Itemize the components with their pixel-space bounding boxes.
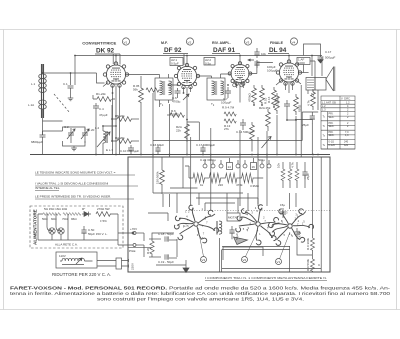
capacitor C17 500 — [200, 145, 205, 155]
svg-text:R.0 300k: R.0 300k — [306, 237, 310, 250]
label CONVERTITRICE V1 — [82, 42, 117, 55]
svg-text:DAF 91: DAF 91 — [213, 47, 235, 54]
svg-text:5: 5 — [303, 220, 305, 224]
svg-text:1: 1 — [259, 232, 261, 236]
svg-text:L.2: L.2 — [322, 105, 326, 108]
svg-text:C.20: C.20 — [88, 128, 95, 132]
svg-text:R.0556k: R.0556k — [133, 84, 140, 91]
wire switch stems — [205, 158, 269, 164]
variable capacitor C20 — [81, 128, 89, 143]
svg-text:1: 1 — [202, 207, 204, 211]
svg-text:47µµF: 47µµF — [99, 113, 108, 117]
svg-text:R2A22k: R2A22k — [176, 125, 182, 132]
svg-text:5Ω 15Ω 16Ω 10Ω: 5Ω 15Ω 16Ω 10Ω — [44, 207, 68, 211]
capacitor C1 — [68, 86, 74, 96]
socket V3 pointer — [280, 232, 291, 259]
resistor R11 vertical — [272, 87, 277, 107]
svg-text:16: 16 — [252, 165, 256, 169]
socket V2 pointer — [246, 230, 259, 257]
footnote underline — [205, 279, 327, 281]
wire trio stems — [283, 162, 305, 188]
svg-text:7: 7 — [206, 221, 208, 225]
svg-text:+70V: +70V — [130, 227, 137, 231]
svg-text:C.23 3000µ: C.23 3000µ — [200, 158, 216, 162]
switch contact row — [203, 163, 271, 170]
svg-text:R.16: R.16 — [267, 96, 271, 103]
svg-text:4.7k: 4.7k — [307, 100, 311, 106]
svg-text:V4: V4 — [292, 40, 296, 44]
svg-text:V1: V1 — [124, 40, 128, 44]
wire antenna top to grid rail — [43, 73, 71, 85]
svg-text:T4: T4 — [323, 144, 327, 147]
riduttore inner details — [60, 261, 93, 265]
labels coupling — [261, 52, 277, 73]
svg-text:500µ: 500µ — [258, 158, 265, 162]
pilot lamp 2 — [58, 228, 64, 234]
dropper resistor 2 — [52, 213, 61, 216]
tube V2 DF92 — [174, 63, 199, 88]
resistor R right vertical — [311, 89, 316, 110]
wire C top to anode rail — [304, 44, 321, 78]
svg-text:V2: V2 — [243, 258, 247, 262]
ground in chassis — [183, 268, 189, 273]
capacitor C14 — [240, 119, 246, 130]
socket V2 spider — [230, 198, 286, 251]
svg-text:220: 220 — [218, 183, 223, 187]
svg-text:C.7100µµF: C.7100µµF — [221, 97, 231, 104]
socket V1 pointer line — [198, 228, 204, 257]
svg-text:R.0 560k: R.0 560k — [306, 258, 310, 271]
wire right column verticals — [312, 55, 322, 110]
resistor R vertical trio right — [281, 169, 285, 181]
speaker — [326, 67, 335, 92]
svg-text:1000: 1000 — [298, 61, 305, 65]
dropper resistor chain labels — [44, 207, 68, 211]
capacitor C19 50µF — [149, 254, 177, 259]
socket V3 badge — [276, 259, 282, 265]
tuning subchassis wire frame — [63, 127, 86, 146]
capacitor C 500µµF top — [318, 48, 324, 63]
svg-text:1k: 1k — [200, 183, 204, 187]
svg-text:150-560k: 150-560k — [156, 171, 160, 184]
wire v2 anode to T2 — [197, 74, 232, 78]
svg-text:7: 7 — [203, 231, 205, 235]
svg-text:DF 92: DF 92 — [164, 47, 182, 54]
svg-text:270Ω 5W: 270Ω 5W — [97, 207, 110, 211]
arrow left — [248, 59, 254, 61]
capacitor C7 100µµF — [225, 87, 231, 98]
volume pot R2A 25k — [266, 109, 271, 131]
dropper resistor 1 — [43, 213, 52, 216]
svg-text:C.64700µ: C.64700µ — [172, 96, 181, 103]
underline DF92 — [163, 53, 188, 55]
wire antenna top up — [42, 64, 44, 73]
resistor battery dropper vertical — [150, 241, 154, 254]
V2 circle badge — [186, 38, 193, 45]
svg-text:PILE: PILE — [129, 249, 136, 253]
svg-text:500µµF: 500µµF — [325, 56, 335, 60]
svg-text:3: 3 — [251, 210, 253, 214]
resistor R17 vertical under V4 — [294, 94, 299, 115]
svg-text:V3: V3 — [246, 40, 250, 44]
diode plate leads V3 — [233, 80, 244, 87]
labels under droppers — [42, 217, 77, 221]
svg-text:C.19 - 50µF: C.19 - 50µF — [158, 260, 174, 264]
svg-text:L.1 ANT. OB: L.1 ANT. OB — [322, 101, 336, 104]
capacitor C18 50µF — [149, 236, 177, 241]
riduttore winding — [62, 258, 84, 261]
tube V3 DAF91 — [228, 62, 252, 86]
wire lamps — [47, 214, 68, 240]
svg-text:2: 2 — [347, 109, 349, 112]
svg-text:50Ω: 50Ω — [42, 217, 48, 221]
oscillator coil L2/L3 — [103, 131, 107, 143]
resistor row 2 — [209, 173, 225, 183]
svg-text:tenna in ferrite. Alimentazion: tenna in ferrite. Alimentazione a batter… — [10, 291, 390, 297]
wire T1 secondary to V2 grid — [160, 85, 178, 107]
wire mid rail y140.5 — [153, 112, 318, 141]
dotted line inside box — [186, 210, 330, 212]
resistor R10 vertical — [260, 85, 265, 105]
svg-text:5: 5 — [187, 224, 189, 228]
ground under C1 — [68, 96, 74, 101]
labels trio — [277, 162, 295, 168]
svg-text:7: 7 — [264, 219, 266, 223]
svg-text:V. CIRC.: V. CIRC. — [341, 98, 351, 101]
resistor R2A 22k vertical — [185, 124, 190, 142]
capacitor C2 6800pF — [40, 131, 46, 143]
resistor trio 2 — [288, 169, 292, 181]
IF transformer T2 — [207, 78, 225, 100]
coupling network V3/V4 — [254, 48, 259, 58]
svg-text:6800µµF: 6800µµF — [31, 140, 43, 144]
svg-text:SEC.: SEC. — [329, 125, 335, 128]
wire speaker links — [325, 78, 327, 81]
table frame — [321, 96, 355, 149]
wire chassis routing top — [170, 157, 258, 213]
variable capacitor C2 — [67, 128, 75, 143]
svg-text:15µ: 15µ — [280, 203, 285, 207]
output transformer T3 — [306, 78, 326, 91]
resistor chassis right 2 — [310, 259, 314, 271]
capacitor C16 50µF — [155, 145, 160, 155]
trimmer arrow T1 — [183, 94, 189, 100]
wire V3 pins down — [237, 82, 244, 103]
wedge under MGT — [234, 237, 248, 245]
wire gnd stem — [185, 260, 187, 268]
svg-text:Rs: Rs — [82, 207, 86, 211]
wire R4 top — [140, 76, 142, 155]
table header text — [322, 98, 351, 147]
wire R2A loop — [187, 122, 199, 141]
ground tuning — [71, 146, 77, 151]
pot wiper arrow — [262, 137, 272, 149]
surge resistor 270 — [96, 212, 110, 217]
riduttore outer box — [56, 252, 97, 268]
svg-text:R1-22k: R1-22k — [96, 92, 106, 96]
antenna coil L1A (lower link winding) — [39, 100, 47, 109]
capacitor C15 — [284, 100, 290, 110]
svg-text:4: 4 — [298, 219, 300, 223]
V1 circle badge — [122, 38, 129, 45]
resistor R3-20k horizontal — [117, 139, 139, 144]
svg-text:R5-22k: R5-22k — [115, 114, 125, 118]
resistor R6 2.2M horizontal — [167, 113, 184, 118]
wire V1 pins down — [103, 83, 120, 155]
svg-text:C.10 6800µµF: C.10 6800µµF — [120, 149, 139, 153]
svg-text:V4: V4 — [202, 258, 206, 262]
riduttore tap arrow — [76, 258, 82, 264]
svg-text:0-220: 0-220 — [329, 144, 336, 147]
wire v3 anode right — [249, 63, 273, 74]
capacitor 0.47 chassis right — [294, 228, 300, 239]
svg-text:T3: T3 — [323, 134, 327, 137]
svg-text:ALLA RETE C.A.: ALLA RETE C.A. — [55, 243, 78, 247]
svg-text:I VALORI TRA(...) SI DEVON: I VALORI TRA(...) SI DEVONO ALLE CONNESS… — [35, 182, 108, 186]
oscillator coil in chassis — [216, 221, 222, 235]
svg-text:5: 5 — [243, 227, 245, 231]
wire V2 pins down — [184, 87, 191, 155]
capacitor C right column — [310, 112, 315, 123]
svg-text:FINALE: FINALE — [270, 41, 284, 45]
V3 circle badge — [244, 38, 251, 45]
table columns — [328, 96, 341, 149]
svg-text:L.3: L.3 — [322, 109, 326, 112]
svg-text:L.1A: L.1A — [28, 103, 34, 107]
trimmer arrow through L2 — [97, 132, 110, 147]
note underline 2 — [35, 186, 138, 191]
resistor R13 horizontal — [224, 119, 236, 123]
resistor R16 vertical under V4 — [275, 93, 280, 114]
wire resistor 1M vertical above box — [160, 157, 165, 194]
svg-text:0.5µF: 0.5µF — [171, 62, 179, 66]
label FINALE V4 — [269, 41, 287, 54]
svg-text:110V: 110V — [59, 254, 66, 258]
svg-text:1,0: 1,0 — [345, 134, 349, 137]
svg-text:100µµF: 100µµF — [267, 69, 277, 73]
svg-text:470k: 470k — [236, 183, 243, 187]
capacitor C4 — [93, 103, 99, 113]
filter electrolytic — [81, 226, 86, 240]
labels under resistor row — [200, 183, 260, 188]
label MGT box — [227, 213, 240, 221]
socket V3 spider — [264, 202, 317, 250]
svg-text:470kΩ: 470kΩ — [248, 92, 252, 102]
svg-text:RIV. AMPL.: RIV. AMPL. — [212, 41, 231, 45]
resistor R2 1k near V1 — [146, 88, 161, 92]
svg-text:C.17 5000µµF: C.17 5000µµF — [196, 143, 215, 147]
note underline 3 — [35, 198, 134, 200]
svg-text:10k: 10k — [277, 163, 281, 168]
tube V4 DL94 — [276, 60, 301, 85]
svg-text:4: 4 — [186, 214, 188, 218]
svg-text:DL 94: DL 94 — [269, 47, 287, 54]
svg-text:ALIMENTATORE: ALIMENTATORE — [33, 209, 38, 245]
svg-text:LE TENSIONI INDICATE SONO M: LE TENSIONI INDICATE SONO MISURATE CON V… — [35, 171, 116, 175]
svg-text:25µF: 25µF — [306, 173, 310, 180]
dropper resistor 3 — [63, 213, 72, 216]
svg-text:50µF 150 V. L.: 50µF 150 V. L. — [88, 232, 108, 236]
svg-text:DK 92: DK 92 — [96, 48, 115, 55]
rectifier diode — [82, 212, 91, 217]
wire top screen rail y57 — [75, 55, 322, 57]
alimentatore dashed frame — [30, 206, 123, 248]
svg-text:± 5%: ± 5% — [100, 219, 107, 223]
electrolytic right of trio — [302, 168, 307, 179]
dropper resistor 4 — [72, 213, 81, 216]
wire misc right — [295, 85, 313, 157]
coupling ecap 2 — [254, 60, 259, 68]
svg-text:2: 2 — [263, 216, 265, 220]
resistor row under switches — [193, 173, 209, 183]
svg-text:T2: T2 — [323, 125, 327, 128]
junction dots — [42, 55, 319, 156]
svg-text:L.1: L.1 — [31, 82, 36, 86]
wire left joins of R5/R3 — [112, 105, 117, 141]
wire C4 down to rail — [93, 95, 96, 155]
svg-text:R.1327k: R.1327k — [224, 124, 231, 131]
svg-text:14: 14 — [228, 165, 232, 169]
wire osc coil to rails — [103, 126, 116, 155]
IF transformer T1 — [155, 78, 173, 100]
underline DK92 — [95, 54, 120, 65]
svg-text:CONVERTITRICE: CONVERTITRICE — [82, 42, 117, 46]
svg-text:V2: V2 — [188, 40, 192, 44]
wire L1A bottom to tuning box — [43, 109, 63, 135]
wire V4 pins down — [276, 80, 301, 93]
note underline 1 — [35, 174, 135, 176]
svg-text:C.14 500µµF: C.14 500µµF — [236, 130, 254, 134]
resistor R14 vertical low — [250, 122, 255, 152]
AV box — [170, 58, 183, 66]
battery terminal + — [133, 232, 144, 235]
svg-text:C.16 50µF: C.16 50µF — [150, 143, 164, 147]
svg-text:INTERNE AL TEL.: INTERNE AL TEL. — [35, 186, 60, 190]
footnote under chassis box — [205, 276, 327, 280]
ferrite rod — [42, 64, 44, 118]
capacitor 15µ in chassis top — [280, 208, 286, 218]
svg-text:T2: T2 — [211, 102, 215, 107]
capacitor C10 — [128, 145, 134, 155]
capacitor C6 — [175, 88, 181, 98]
wire grid rail y85 left — [71, 73, 105, 83]
socket V1 spider — [174, 205, 218, 243]
svg-text:220V: 220V — [131, 263, 135, 270]
grid stopper box 1AF — [297, 58, 310, 65]
label RIV. AMPL. V3 — [212, 41, 235, 54]
svg-text:0.5µ: 0.5µ — [205, 62, 211, 66]
wire chassis interior — [148, 157, 321, 272]
extra pin digits — [183, 207, 304, 240]
svg-text:R.9 4.7M: R.9 4.7M — [222, 106, 235, 110]
underline DAF91 — [212, 53, 240, 55]
svg-text:2: 2 — [257, 209, 259, 213]
svg-text:MGT/6: MGT/6 — [228, 216, 237, 220]
svg-text:I COMPONENTI TRA I N. 1: I COMPONENTI TRA I N. 1 COMPONENTI META … — [205, 276, 327, 280]
mains plug — [116, 258, 129, 269]
antenna coil L1 — [39, 74, 47, 92]
resistor R4 vertical right of V1 — [139, 84, 144, 106]
wire V4 lower joins — [277, 110, 296, 155]
wire row joins — [185, 166, 263, 178]
wire cap to bottom rail — [42, 131, 44, 155]
svg-text:SEC.: SEC. — [329, 134, 335, 137]
svg-text:R2A 25k: R2A 25k — [259, 106, 271, 110]
svg-text:T1: T1 — [160, 102, 164, 107]
wire supply chain — [38, 214, 118, 240]
svg-text:V1: V1 — [277, 260, 281, 264]
wire top rail drop at V1 — [75, 54, 289, 85]
resistor chassis right 1 — [310, 238, 314, 250]
svg-text:4.7k: 4.7k — [291, 162, 295, 168]
electrolytic in chassis — [229, 226, 234, 239]
resistor R5-22k horizontal — [117, 117, 139, 122]
wire bottom rail y154.5 full — [30, 154, 330, 156]
label M.F. V2 — [161, 41, 182, 54]
svg-text:R.20: R.20 — [146, 247, 150, 254]
svg-text:C.4: C.4 — [99, 107, 104, 111]
svg-text:25µF: 25µF — [302, 123, 309, 127]
output node circle — [132, 232, 134, 234]
svg-text:60Ω: 60Ω — [51, 217, 57, 221]
svg-text:1,2: 1,2 — [346, 101, 350, 104]
svg-text:C.1: C.1 — [63, 82, 68, 86]
svg-text:3: 3 — [286, 211, 288, 215]
svg-text:70Ω: 70Ω — [62, 217, 68, 221]
battery terminal - — [133, 244, 144, 247]
capacitor bank labels — [200, 158, 265, 162]
svg-text:10k: 10k — [261, 52, 266, 56]
wire riduttore to plug — [97, 261, 116, 267]
socket pin numbers — [185, 206, 305, 237]
svg-text:C.17: C.17 — [325, 50, 332, 54]
AV2 box above T2 — [204, 58, 215, 66]
resistor R1 22k — [93, 97, 115, 102]
resistor R8 470k vertical — [252, 85, 257, 105]
gang dashed link — [54, 94, 70, 113]
resistor row 4 — [242, 173, 259, 183]
V4 circle badge — [290, 38, 297, 45]
svg-text:sono costruiti per l’impiego c: sono costruiti per l’impiego con valvole… — [97, 297, 304, 303]
label 270 5W — [97, 207, 110, 223]
tube V1 DK92 — [103, 62, 128, 87]
svg-text:FARET-VOXSON - Mod. PERSONAL 5: FARET-VOXSON - Mod. PERSONAL 501 RECORD.… — [10, 286, 391, 292]
socket V1 badge — [201, 257, 207, 263]
wire supply outputs — [118, 233, 133, 245]
socket V2 badge — [242, 257, 248, 263]
svg-text:RIDUTTORE PER 220 V C. A.: RIDUTTORE PER 220 V C. A. — [52, 272, 111, 277]
table rows — [321, 101, 355, 150]
svg-text:C.18 - 50µF: C.18 - 50µF — [158, 232, 174, 236]
svg-text:420: 420 — [344, 144, 349, 147]
wire battery area — [144, 233, 177, 257]
pilot lamp 1 — [49, 228, 55, 234]
svg-text:0-1Ω: 0-1Ω — [329, 140, 335, 143]
svg-text:LE PRESE INTERMEDIE DEI TR: LE PRESE INTERMEDIE DEI TR. SI VEDONO IN… — [35, 195, 111, 199]
svg-text:SEC.: SEC. — [329, 116, 335, 119]
resistor R12 horizontal — [224, 112, 236, 116]
wire curtain from top circuit into chassis box — [153, 93, 267, 193]
svg-text:C: C — [318, 263, 321, 267]
underline DL94 — [268, 53, 289, 55]
wire chassis lower horizontals — [128, 238, 321, 272]
svg-text:240: 240 — [344, 140, 349, 143]
svg-text:T1: T1 — [323, 116, 327, 119]
wire rail y131 segment — [43, 130, 63, 132]
chassis box frame — [128, 157, 330, 272]
svg-text:1: 1 — [185, 209, 187, 213]
resistor row 3 — [225, 173, 241, 183]
